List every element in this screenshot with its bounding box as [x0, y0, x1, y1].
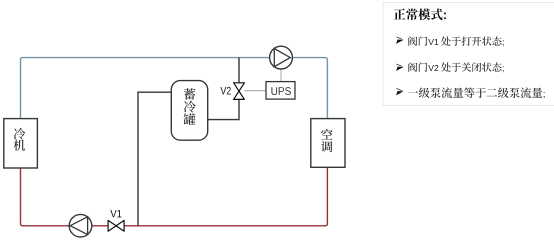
- text panel border: [383, 3, 554, 106]
- pump P1 (primary pump, bottom return line): [69, 214, 92, 237]
- heading 正常模式:: [394, 9, 446, 21]
- wire: black branch from return line up to tank left port: [138, 92, 171, 226]
- wire: gray control line from pump P2 down to UPS: [280, 69, 282, 82]
- valve V2 (on tank charge line): [234, 83, 245, 100]
- storage tank 蓄冷罐 (rounded): [171, 81, 207, 141]
- wire: red return line from chiller bottom across to AC bottom: [21, 167, 328, 226]
- bullet 2 arrow: [396, 64, 402, 67]
- air-conditioner box 空调: [311, 119, 345, 168]
- bullet 1 arrow: [396, 37, 402, 40]
- label V1: [110, 210, 121, 217]
- wire: black branch from tank right port up through valve V2 to supply line: [208, 58, 239, 120]
- bullet 2 text 阀门V2处于关闭状态;: [408, 62, 503, 72]
- bullet 1 text 阀门V1处于打开状态;: [408, 36, 503, 46]
- label UPS: [271, 87, 291, 95]
- chiller box 冷机: [4, 119, 38, 168]
- wire: gray control line from valve V2 to UPS: [244, 90, 266, 92]
- wire: blue supply line from chiller top across to AC top: [21, 58, 328, 119]
- valve V1 (on return line): [108, 220, 124, 231]
- pump P2 (secondary pump, top supply line): [270, 46, 293, 69]
- label V2: [220, 87, 230, 95]
- bullet 3 arrow: [396, 88, 402, 91]
- bullet 3 text 一级泵流量等于二级泵流量;: [408, 87, 545, 98]
- UPS box: [266, 82, 295, 100]
